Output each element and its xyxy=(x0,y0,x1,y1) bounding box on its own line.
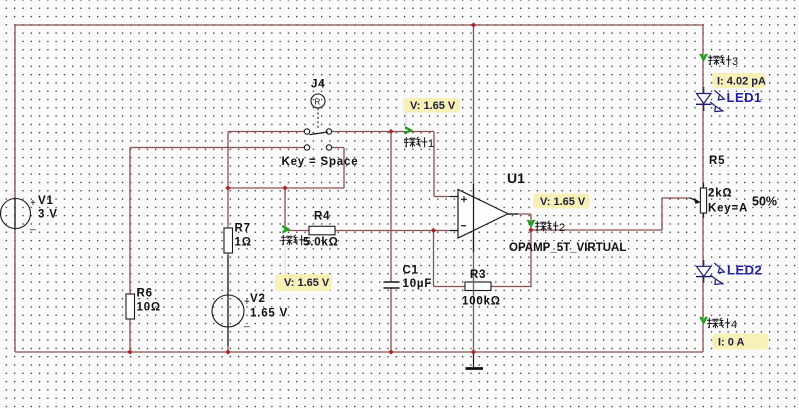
wire switch row2 xyxy=(130,148,344,189)
svg-text:10Ω: 10Ω xyxy=(137,302,161,314)
svg-text:OPAMP_5T_VIRTUAL: OPAMP_5T_VIRTUAL xyxy=(509,242,626,254)
svg-text:I: 0 A: I: 0 A xyxy=(718,337,745,349)
probe 2 xyxy=(527,220,566,234)
probe 4 xyxy=(699,317,737,331)
svg-text:1Ω: 1Ω xyxy=(235,237,252,249)
LED LED2 xyxy=(696,260,724,284)
label I probe4 xyxy=(713,334,769,350)
node C1 bottom xyxy=(388,349,393,354)
wire left rail xyxy=(14,25,16,352)
node probe5 top xyxy=(282,185,287,190)
svg-text:10µF: 10µF xyxy=(403,278,433,290)
svg-text:1.65 V: 1.65 V xyxy=(250,308,288,320)
svg-text:5: 5 xyxy=(305,236,311,248)
wire R4 row xyxy=(285,230,450,232)
resistor R7 xyxy=(224,223,252,254)
switch J4 xyxy=(282,79,359,169)
svg-text:V: 1.65 V: V: 1.65 V xyxy=(284,277,330,289)
svg-text:R6: R6 xyxy=(137,288,153,300)
svg-text:R4: R4 xyxy=(314,211,330,223)
pin stub V2 xyxy=(227,255,229,346)
wire R7 V2 branch xyxy=(227,188,229,352)
svg-text:I: 4.02 pA: I: 4.02 pA xyxy=(717,76,766,88)
svg-text:R7: R7 xyxy=(235,223,251,235)
wire switch row1 corner to node xyxy=(227,132,229,189)
ground xyxy=(466,354,484,369)
svg-text:V1: V1 xyxy=(38,195,54,207)
svg-text:3 V: 3 V xyxy=(38,209,58,221)
label I probe3 xyxy=(713,73,766,88)
pin stub R5 xyxy=(703,183,705,218)
svg-text:Key=A: Key=A xyxy=(708,203,748,215)
svg-text:LED1: LED1 xyxy=(727,90,762,105)
capacitor C1 xyxy=(384,265,433,291)
svg-text:R5: R5 xyxy=(709,155,725,167)
wire C1 branch xyxy=(390,132,392,353)
node ground rail xyxy=(471,349,476,354)
node top rail / power xyxy=(471,22,476,27)
svg-text:2kΩ: 2kΩ xyxy=(708,188,732,200)
probe 5 xyxy=(281,225,311,248)
label V probe5 xyxy=(275,246,332,291)
LED LED1 xyxy=(696,87,724,112)
svg-text:V: 1.65 V: V: 1.65 V xyxy=(540,196,586,208)
svg-text:Key = Space: Key = Space xyxy=(282,156,359,168)
op-amp U1 xyxy=(450,170,626,254)
wire R6 branch xyxy=(129,148,131,353)
svg-text:1: 1 xyxy=(428,138,434,150)
node R6 bottom xyxy=(127,349,132,354)
node C1 top xyxy=(388,129,393,134)
probe 3 xyxy=(699,54,738,68)
svg-text:R3: R3 xyxy=(470,269,486,281)
svg-text:3: 3 xyxy=(732,56,738,68)
resistor R4 xyxy=(303,211,339,249)
svg-text:100kΩ: 100kΩ xyxy=(462,296,501,308)
source V2 xyxy=(212,293,288,328)
wire top rail xyxy=(15,24,703,26)
svg-text:V: 1.65 V: V: 1.65 V xyxy=(410,100,456,112)
svg-text:R: R xyxy=(315,98,321,107)
wire right rail xyxy=(702,25,704,352)
svg-text:_: _ xyxy=(29,220,36,231)
svg-text:J4: J4 xyxy=(311,79,325,91)
wire R3 row xyxy=(434,231,532,287)
resistor R3 xyxy=(462,269,501,308)
wire over R3 body xyxy=(473,282,475,292)
source V1 xyxy=(1,195,58,231)
probe 1 xyxy=(404,126,434,150)
svg-text:4: 4 xyxy=(731,319,737,331)
wire switch row1 xyxy=(228,132,450,197)
wire opamp power vertical xyxy=(473,25,475,352)
potentiometer R5 xyxy=(690,155,777,215)
resistor R6 xyxy=(126,288,161,320)
pin stub V1 xyxy=(14,198,16,231)
wire output feedback xyxy=(508,198,691,287)
svg-text:+: + xyxy=(30,198,36,209)
svg-text:U1: U1 xyxy=(507,170,525,186)
node R7 top xyxy=(225,185,230,190)
svg-text:50%: 50% xyxy=(752,195,777,209)
node probe2 output xyxy=(528,227,533,232)
svg-text:2: 2 xyxy=(559,222,565,234)
wire probe5 drop xyxy=(284,188,286,231)
svg-text:C1: C1 xyxy=(403,265,419,277)
label V probe1 xyxy=(403,98,460,127)
label V probe2 xyxy=(533,194,590,209)
node minus input xyxy=(431,228,436,233)
svg-text:_: _ xyxy=(243,317,250,328)
node V2 bottom xyxy=(225,349,230,354)
svg-text:V2: V2 xyxy=(250,293,266,305)
svg-text:LED2: LED2 xyxy=(727,263,762,278)
wire bottom rail xyxy=(15,351,703,353)
